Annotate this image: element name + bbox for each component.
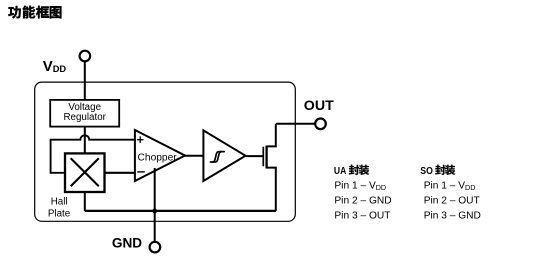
wire chopper ground	[154, 168, 156, 211]
chip outline	[35, 82, 296, 221]
svg-text:GND: GND	[112, 236, 142, 251]
svg-text:Hall: Hall	[51, 196, 68, 207]
op-amp Chopper	[135, 130, 185, 181]
svg-text:Pin 3 – GND: Pin 3 – GND	[424, 210, 481, 221]
svg-text:Chopper: Chopper	[138, 152, 178, 163]
svg-text:UA: UA	[334, 166, 346, 177]
svg-text:Pin 1 – VDD: Pin 1 – VDD	[334, 181, 386, 192]
wire chopper output to schmitt input	[185, 155, 203, 157]
svg-text:Pin 1 – VDD: Pin 1 – VDD	[424, 181, 476, 192]
svg-text:Plate: Plate	[48, 209, 71, 220]
GND terminal	[150, 242, 161, 253]
wire drain to OUT terminal	[276, 123, 316, 125]
wire schmitt output to transistor gate	[246, 155, 264, 157]
svg-text:OUT: OUT	[304, 98, 334, 114]
svg-text:V: V	[43, 58, 53, 75]
schmitt trigger	[203, 130, 245, 181]
voltage regulator	[50, 100, 119, 127]
pin list UA package	[334, 165, 392, 222]
junction dot	[152, 209, 157, 214]
svg-text:Pin 3 – OUT: Pin 3 – OUT	[334, 210, 390, 221]
VDD terminal	[80, 51, 91, 62]
title 功能框图	[8, 6, 61, 19]
pin list SO package	[420, 165, 481, 222]
OUT terminal	[315, 119, 326, 130]
svg-text:DD: DD	[53, 64, 67, 74]
label VDD	[43, 58, 67, 75]
svg-text:Pin 2 – GND: Pin 2 – GND	[334, 196, 391, 207]
svg-text:Regulator: Regulator	[63, 112, 106, 123]
svg-text:SO: SO	[420, 166, 433, 177]
wire Hall plate bottom to ground bus	[84, 192, 86, 211]
label Hall Plate	[48, 196, 71, 219]
hysteresis symbol	[211, 152, 225, 162]
wire Hall plate left to chopper + input (with crossover hop)	[51, 135, 135, 173]
wire regulator to Hall plate	[84, 127, 86, 154]
wire VDD terminal to voltage regulator	[84, 61, 86, 100]
wire ground bus to GND terminal	[154, 211, 156, 242]
transistor Q1 (output MOSFET)	[263, 124, 276, 211]
svg-text:Pin 2 – OUT: Pin 2 – OUT	[424, 196, 480, 207]
wire Hall plate right to chopper - input	[105, 172, 136, 174]
hall plate	[65, 153, 105, 192]
ground bus wire	[85, 210, 276, 212]
